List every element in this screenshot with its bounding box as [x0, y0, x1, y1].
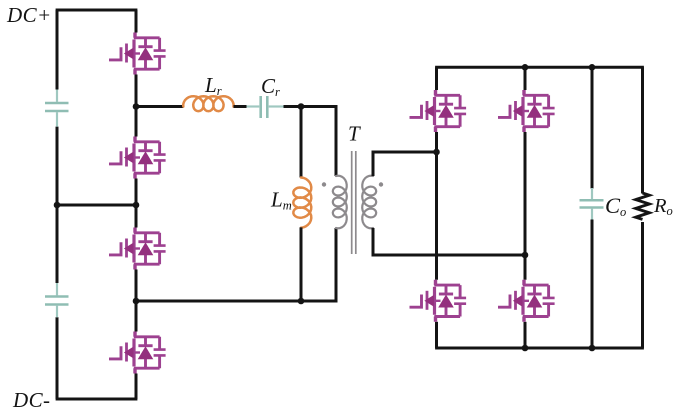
inductor Lm — [293, 178, 311, 228]
node bottom rail Co — [589, 345, 596, 352]
wire left rail upper — [56, 10, 59, 90]
node cap midpoint left — [54, 202, 61, 209]
wire legA seg3 — [435, 322, 438, 348]
node top rail legB — [522, 64, 529, 71]
wire Co bottom — [591, 220, 594, 349]
wire bottom DC- rail — [56, 398, 138, 401]
wire top output rail — [435, 66, 644, 69]
wire Lm bottom — [300, 227, 303, 301]
transistor Q5 — [410, 90, 467, 132]
wire leg1 seg4 — [135, 270, 138, 332]
capacitor Co — [591, 188, 593, 199]
wire left rail middle — [56, 127, 59, 283]
wire mid link — [57, 204, 136, 207]
wire top DC+ rail — [56, 9, 138, 12]
wire primary bottom return — [136, 228, 336, 301]
transistor Q2 — [109, 137, 166, 179]
wire primary winding stub — [335, 107, 338, 177]
capacitor C1 (upper input cap) — [56, 90, 58, 102]
resistor Ro — [636, 193, 650, 219]
inductor Lr — [183, 96, 233, 111]
node leg1 midpoint — [133, 202, 140, 209]
transistor Q8 — [498, 280, 555, 322]
node B bridge1 lower output — [133, 298, 140, 305]
svg-text:Cr: Cr — [261, 74, 280, 99]
node top rail Co — [589, 64, 596, 71]
wire legA seg1 — [435, 67, 438, 90]
transformer T secondary winding — [362, 176, 376, 229]
wire leg1 seg3 — [135, 179, 138, 228]
wire legB seg1 — [524, 67, 527, 90]
node A bridge1 upper output — [133, 103, 140, 110]
svg-text:DC+: DC+ — [6, 3, 52, 27]
wire Ro bottom — [641, 222, 644, 348]
wire leg1 seg5 — [135, 374, 138, 400]
transformer T core — [352, 151, 356, 254]
svg-text:Lm: Lm — [270, 188, 292, 213]
wire legA seg2 — [435, 132, 438, 280]
wire Lr to Cr — [234, 105, 247, 108]
wire Ro top — [641, 67, 644, 193]
node Lm top junction — [298, 103, 305, 110]
transformer T primary winding — [333, 176, 347, 229]
node secondary top junction — [433, 149, 440, 156]
wire leg1 seg2 — [135, 75, 138, 137]
wire node1 to Lr — [136, 105, 183, 108]
capacitor Cr — [247, 105, 260, 107]
transformer T primary polarity dot — [322, 182, 326, 186]
transistor Q6 — [498, 90, 555, 132]
node Lm bottom junction — [298, 298, 305, 305]
wire left rail lower — [56, 317, 59, 399]
transistor Q4 — [109, 332, 166, 374]
wire secondary top — [373, 152, 437, 176]
svg-text:Ro: Ro — [653, 195, 673, 218]
svg-text:Co: Co — [605, 193, 626, 219]
capacitor C2 (lower input cap) — [56, 283, 58, 295]
wire legB seg2 — [524, 132, 527, 280]
wire Co top — [591, 67, 594, 188]
transistor Q3 — [109, 228, 166, 270]
wire Lm top — [300, 107, 303, 178]
node secondary bottom junction — [522, 252, 529, 259]
transistor Q7 — [410, 280, 467, 322]
wire Cr to primary top — [284, 107, 337, 177]
wire leg1 seg1 — [135, 10, 138, 33]
wire legB seg3 — [524, 322, 527, 348]
wire secondary bottom — [373, 228, 525, 255]
svg-text:DC-: DC- — [12, 388, 50, 412]
transformer T secondary polarity dot — [379, 182, 383, 186]
node bottom rail legB — [522, 345, 529, 352]
wire bottom output rail — [435, 347, 644, 350]
svg-text:T: T — [348, 122, 361, 146]
svg-text:Lr: Lr — [204, 73, 222, 98]
transistor Q1 — [109, 33, 166, 75]
